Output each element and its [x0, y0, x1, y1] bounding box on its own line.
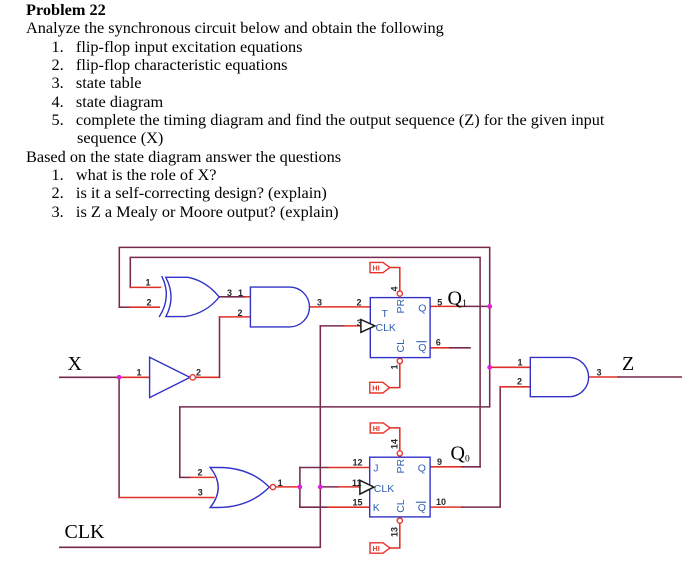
JK flip-flop U7 labels — [373, 458, 426, 514]
wire: AND U2 pin2 red stub — [220, 316, 251, 318]
svg-text:2: 2 — [517, 377, 522, 387]
junction dot CLK tap — [318, 485, 323, 490]
bubble JK CL — [397, 518, 402, 523]
wire: XOR pin1 red stub — [130, 286, 161, 288]
svg-text:HI: HI — [373, 544, 380, 553]
HI symbol at JK PR — [370, 423, 400, 451]
svg-text:11: 11 — [352, 478, 362, 488]
bubble JK PR — [397, 451, 402, 456]
wire: inverter output to AND U2 pin2 riser — [195, 376, 219, 378]
wire: X branch vertical down to OR pin3 — [118, 377, 120, 497]
T flip-flop U6 labels — [376, 298, 427, 353]
JK clock triangle — [360, 480, 374, 494]
inverter U3 — [150, 357, 196, 397]
wire: X input horizontal (dark) — [60, 376, 119, 378]
svg-text:9: 9 — [437, 457, 442, 467]
wire: XOR output to AND U2 pin1 — [219, 296, 245, 298]
svg-text:Q0: Q0 — [451, 443, 470, 465]
svg-text:14: 14 — [389, 439, 399, 449]
AND gate U5 (Z output) — [530, 357, 588, 396]
wire: outer feedback loop Q1 to XOR pin2 (left vertical + top horizontal + right vertical B) — [119, 247, 489, 477]
svg-text:1: 1 — [238, 288, 243, 298]
wire: JK Q output to vertical A — [430, 466, 462, 468]
junction dot Z pin1 — [487, 365, 492, 370]
junction dot OR output — [297, 485, 302, 490]
svg-text:13: 13 — [389, 527, 399, 537]
wire: JK CLK pin — [320, 486, 338, 488]
wire: JK Qbar to vertical C up to Z AND pin2 — [430, 506, 462, 508]
svg-text:4: 4 — [389, 286, 399, 291]
svg-text:PR: PR — [395, 298, 407, 313]
svg-text:1: 1 — [146, 277, 151, 287]
svg-text:3: 3 — [198, 488, 203, 498]
svg-text:K: K — [373, 502, 380, 514]
svg-text:12: 12 — [353, 458, 363, 468]
wire: K pin — [300, 506, 328, 508]
svg-text:CLK: CLK — [376, 322, 396, 334]
junction dot Q1 net — [487, 304, 492, 309]
svg-text:PR: PR — [395, 458, 407, 473]
svg-text:HI: HI — [372, 384, 379, 393]
problem statement text — [26, 1, 106, 19]
wire: X red stub to inverter — [119, 376, 150, 378]
svg-text:CL: CL — [395, 499, 407, 513]
wire: T Q output to vertical B — [430, 305, 461, 307]
svg-text:2: 2 — [196, 367, 201, 377]
bubble T CL — [397, 358, 402, 363]
bubble T PR — [397, 291, 402, 296]
svg-text:J: J — [373, 462, 378, 474]
wire: CLK bottom horizontal and vertical riser — [60, 326, 321, 547]
T clock triangle — [361, 320, 375, 333]
svg-text:Q: Q — [418, 502, 426, 514]
wire: OR pin2 red stub — [180, 476, 190, 478]
svg-text:T: T — [382, 308, 389, 320]
svg-text:3: 3 — [597, 367, 602, 377]
svg-text:HI: HI — [373, 263, 380, 272]
svg-text:15: 15 — [353, 497, 363, 507]
junction dot X branch — [117, 375, 122, 380]
svg-text:Q: Q — [418, 462, 426, 474]
svg-text:1: 1 — [278, 478, 283, 488]
svg-text:3: 3 — [317, 297, 322, 307]
wire: inner feedback loop Q0 to XOR pin1 (left vertical + horizontal + vertical A) — [130, 257, 480, 466]
svg-text:3: 3 — [227, 288, 232, 298]
svg-text:HI: HI — [373, 424, 380, 433]
svg-text:Q: Q — [418, 302, 426, 314]
svg-text:CL: CL — [395, 339, 407, 353]
HI symbol at JK CL — [370, 523, 400, 553]
svg-text:1: 1 — [518, 357, 523, 367]
svg-text:2: 2 — [238, 308, 243, 318]
svg-text:6: 6 — [436, 337, 441, 347]
OR gate U4 — [210, 467, 275, 507]
svg-text:CLK: CLK — [374, 483, 394, 495]
HI symbol at T CL — [370, 364, 400, 393]
wire: Z AND output — [590, 376, 618, 378]
svg-text:X: X — [68, 353, 83, 375]
svg-text:2: 2 — [147, 297, 152, 307]
svg-text:2: 2 — [357, 297, 362, 307]
svg-text:2: 2 — [198, 468, 203, 478]
wire: J pin — [300, 467, 328, 469]
AND gate U2 — [250, 287, 309, 327]
XOR gate U1 — [160, 277, 220, 317]
wire: AND U2 output to T input — [310, 306, 371, 308]
wire: OR pin3 red stub — [119, 497, 214, 499]
svg-text:3: 3 — [357, 318, 362, 328]
svg-text:1: 1 — [137, 367, 142, 377]
svg-text:1: 1 — [389, 364, 399, 369]
svg-text:CLK: CLK — [65, 521, 106, 543]
svg-text:Q1: Q1 — [448, 288, 467, 310]
wire: T Qbar stub — [430, 347, 450, 349]
wire: Z AND pin1 red stub — [490, 366, 531, 368]
HI symbol at T PR — [370, 262, 400, 291]
JK flip-flop U7 box — [370, 457, 430, 517]
svg-text:Q: Q — [418, 342, 426, 354]
T flip-flop U6 box — [370, 298, 430, 358]
svg-text:5: 5 — [437, 297, 442, 307]
wire: OR output to JK fanout C-shape — [276, 486, 300, 488]
wire: XOR pin2 red stub — [119, 306, 130, 308]
svg-text:10: 10 — [436, 497, 446, 507]
wire: T CLK pin — [320, 325, 344, 327]
svg-text:Z: Z — [622, 353, 634, 375]
